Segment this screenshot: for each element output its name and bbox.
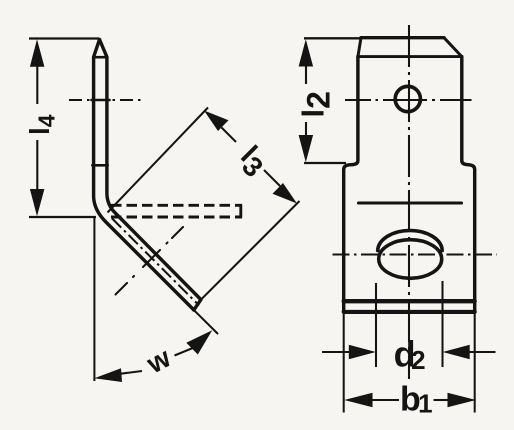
dashed flat-position lower line <box>111 216 242 219</box>
front view inner tab line <box>359 201 462 204</box>
l3 extension line from bend <box>108 108 209 213</box>
side view tip chamfer base line <box>94 56 107 59</box>
w left arrowhead <box>94 368 122 382</box>
w extension line beyond tab end <box>195 311 219 334</box>
bent tab cross centre line dash <box>116 283 128 295</box>
svg-text:l2: l2 <box>295 91 336 117</box>
front view right side with shoulder step <box>462 57 475 312</box>
front view dimple lower ellipse <box>379 240 442 279</box>
front view bottom edge <box>344 310 475 314</box>
d2 left extension line <box>375 283 377 367</box>
label l2 <box>295 91 336 117</box>
w vertical extension line <box>93 217 95 381</box>
l2 bottom extension line <box>304 162 346 164</box>
w dimension line right segment <box>175 348 195 356</box>
label l3 <box>230 140 273 183</box>
side view tick at shoulder height <box>92 164 107 167</box>
bent tab cross centre line dash <box>172 227 183 238</box>
l3 dimension line upper segment <box>222 128 237 143</box>
l3 lower arrowhead <box>273 183 298 204</box>
l2 bottom arrowhead <box>299 135 314 162</box>
l2 top arrowhead <box>299 39 314 66</box>
l4 top extension line <box>29 37 99 39</box>
l4 bottom arrowhead <box>30 189 45 216</box>
d2 right extension line <box>441 281 443 367</box>
side view inner (right) edge with 45° bend <box>100 40 201 300</box>
b1 dimension line left segment <box>371 399 399 401</box>
d2 dimension line right tail <box>469 351 496 353</box>
front view right corner chamfer <box>444 38 462 57</box>
small hole centre line right dot <box>432 99 435 101</box>
dashed flat-position upper line <box>111 204 242 207</box>
front view chamfer base line <box>358 55 462 58</box>
front view vertical centre line <box>408 25 410 379</box>
small hole centre line right dash <box>440 99 472 101</box>
l4 bottom extension line <box>29 216 96 218</box>
small hole centre line middle dash <box>383 99 427 101</box>
front view dimple upper arc <box>378 231 443 251</box>
front view bottom band upper line <box>344 299 475 303</box>
front view left side with shoulder step <box>344 57 358 312</box>
dashed flat-position end cap <box>239 205 242 218</box>
w dimension line left segment <box>120 371 142 374</box>
l2 dimension line upper segment <box>305 52 307 84</box>
l4 top arrowhead <box>30 39 45 67</box>
l3 upper arrowhead <box>204 111 229 132</box>
front view small hole <box>395 86 420 111</box>
bent tab cross centre line dot <box>133 276 134 277</box>
b1 right extension line <box>474 313 476 413</box>
l2 dimension line lower segment <box>305 122 307 150</box>
b1 right arrowhead <box>448 393 477 407</box>
l3 extension line from tab end <box>201 201 300 300</box>
dimple horizontal centre line <box>333 253 498 255</box>
w right arrowhead <box>186 330 212 354</box>
side view bent tab end cap <box>194 300 201 310</box>
b1 dimension line right segment <box>434 399 449 401</box>
bent tab cross centre line dot <box>167 243 168 244</box>
front view left corner chamfer <box>358 38 361 57</box>
d2 right arrowhead <box>443 345 470 359</box>
label l4 <box>24 114 60 135</box>
l4 dimension line upper segment <box>36 52 38 104</box>
d2 dimension line left tail <box>322 351 350 353</box>
l4 dimension line lower segment <box>36 140 38 205</box>
front view top edge <box>361 36 444 39</box>
side view outer (left) edge with 45° bend <box>94 40 194 310</box>
small hole centre line left dot <box>376 99 379 101</box>
d2 left arrowhead <box>349 345 376 359</box>
small hole centre line left dash <box>345 99 371 101</box>
label w <box>141 342 176 380</box>
l2 top extension line <box>304 37 361 39</box>
side view horizontal centre line <box>69 99 144 101</box>
bent tab cross centre line dash over tab <box>143 250 160 267</box>
bent tab axis centre line <box>112 218 199 305</box>
side view tick at centre line crossing <box>92 99 110 102</box>
b1 left extension line <box>343 313 345 413</box>
l3 dimension line lower segment <box>264 170 280 186</box>
b1 left arrowhead <box>344 393 372 407</box>
